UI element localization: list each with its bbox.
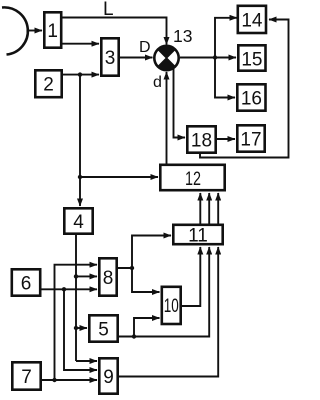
node junction at 132,268 (130, 266, 134, 270)
svg-text:18: 18 (191, 131, 212, 152)
block 6 (12, 269, 40, 295)
block 8 (99, 258, 116, 295)
block 11 (173, 225, 222, 244)
svg-text:3: 3 (105, 48, 116, 69)
svg-text:10: 10 (164, 296, 179, 317)
wire block 5 output to block 11 bottom middle (119, 247, 209, 337)
svg-text:6: 6 (21, 274, 32, 295)
wire junction to block 12 left (80, 176, 158, 178)
svg-text:9: 9 (103, 367, 114, 388)
wire antenna to block 1 (27, 30, 42, 32)
svg-text:d: d (153, 74, 162, 91)
wire block 11 to block 12 arrow 1 (199, 193, 201, 224)
antenna arc (2, 7, 28, 54)
block 1 (44, 12, 61, 47)
svg-text:5: 5 (98, 320, 109, 341)
node junction at 64,289.3 (62, 287, 66, 291)
block 18 (187, 126, 215, 152)
block 16 (237, 84, 265, 110)
block 17 (237, 125, 264, 151)
wire trunk corner to block 9 top input (76, 360, 97, 362)
wire D: block 3 to mixer (120, 57, 153, 59)
wire block 11 to block 12 arrow 2 (208, 193, 210, 224)
wire junction down to block 16 (215, 58, 235, 98)
wire junction up to block 8 top input (55, 265, 98, 380)
wire block 1 to block 3 (63, 43, 100, 45)
node junction at 54.5,380 (52, 378, 56, 382)
svg-text:12: 12 (185, 169, 201, 190)
block 10 (162, 287, 181, 324)
svg-text:L: L (103, 0, 114, 20)
wire d: block 12 top to mixer bottom (166, 72, 168, 164)
block 4 (64, 208, 92, 233)
block 3 (101, 38, 118, 75)
block 14 (238, 6, 266, 33)
block 2 (35, 70, 61, 97)
wire block 6 to block 8 bottom input (42, 288, 98, 290)
svg-text:2: 2 (43, 75, 54, 96)
block number labels (21, 11, 263, 389)
svg-text:4: 4 (73, 212, 84, 233)
svg-text:16: 16 (241, 89, 262, 110)
node junction at 76,276.4 (74, 274, 78, 278)
block 5 (89, 315, 117, 341)
wire block 11 to block 12 arrow 3 (217, 193, 219, 224)
svg-text:8: 8 (103, 268, 114, 289)
svg-text:1: 1 (47, 21, 58, 42)
node junction at 134,336.5 (132, 334, 136, 338)
svg-text:15: 15 (241, 50, 262, 71)
wire junction down to block 4 (79, 75, 81, 206)
node junction at 80,177 (78, 175, 82, 179)
node junction at 76,328 (74, 326, 78, 330)
wire junction up to block 10 bottom input (134, 318, 160, 337)
svg-text:13: 13 (173, 26, 192, 46)
svg-text:7: 7 (21, 367, 32, 388)
block 15 (238, 45, 265, 70)
block 7 (12, 362, 40, 389)
wire mixer output to block 15 (180, 57, 236, 59)
wire junction down to block 9 middle input (64, 289, 97, 370)
wire block 9 output to block 11 bottom right (119, 247, 218, 377)
wire block 10 output to block 11 bottom left (182, 247, 200, 306)
wire mixer tap down to block 18 (174, 68, 186, 138)
svg-text:11: 11 (188, 226, 208, 247)
wire junction down to block 10 top input (132, 268, 160, 292)
mixer 13 circle with filled top and bottom sectors (154, 46, 178, 70)
node junction at 215,57.5 (213, 55, 217, 59)
svg-text:D: D (139, 39, 151, 56)
wire trunk to block 5 input (76, 327, 87, 329)
block 9 (99, 358, 117, 393)
wire block 18 to block 17 (217, 138, 235, 140)
wire junction up to block 14 (215, 18, 237, 58)
wire block 2 to block 3 (63, 74, 99, 76)
svg-text:17: 17 (240, 130, 261, 151)
svg-text:14: 14 (241, 11, 263, 32)
wire block 4 down trunk to 8, 5, 9 (75, 235, 77, 361)
wire trunk to block 8 middle input (76, 275, 97, 277)
wire block 18 bottom to block 14 right side (200, 20, 289, 158)
wire block 8 output to block 11 left (118, 236, 171, 269)
wire L line from block 1 to mixer top (63, 18, 167, 45)
wire block 7 to block 9 bottom input (42, 379, 97, 381)
block 12 (160, 165, 224, 190)
node junction at 80,74.6 (78, 72, 82, 76)
